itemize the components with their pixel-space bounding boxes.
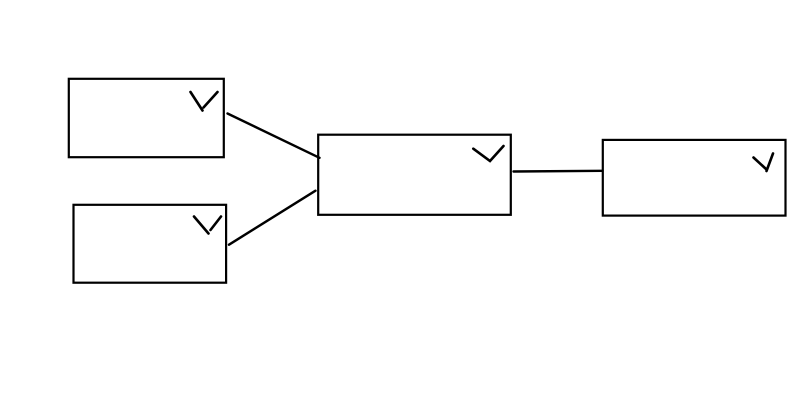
checkmark in box 3 bbox=[473, 146, 503, 161]
checkmark in box 1 bbox=[191, 92, 218, 111]
box 2 (bottom-left rectangle) bbox=[74, 205, 227, 283]
checkmark in box 2 bbox=[194, 217, 221, 234]
box 3 (center rectangle) bbox=[318, 135, 511, 215]
checkmark in box 4 bbox=[754, 154, 774, 172]
box 4 (right rectangle) bbox=[603, 140, 786, 216]
wire: box 2 to box 3 bbox=[229, 191, 316, 245]
wire: box 1 to box 3 bbox=[228, 114, 320, 158]
wire: box 3 to box 4 bbox=[514, 170, 603, 173]
box 1 (top-left rectangle) bbox=[69, 79, 224, 157]
